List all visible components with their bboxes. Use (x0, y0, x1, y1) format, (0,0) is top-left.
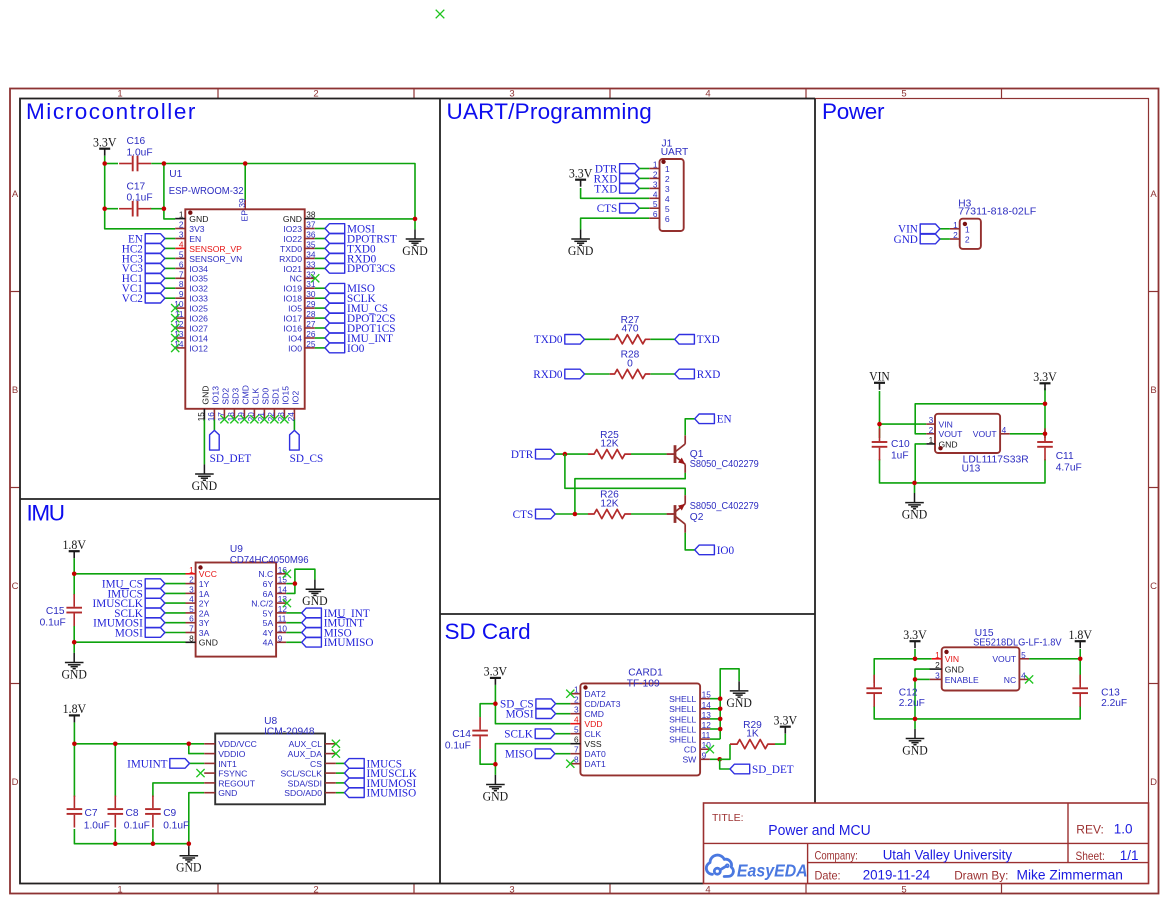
svg-text:4: 4 (179, 239, 184, 249)
U1 pin 39 EP (237, 198, 250, 222)
wire (315, 287, 325, 289)
svg-text:SD2: SD2 (221, 388, 231, 405)
svg-text:IO17: IO17 (283, 314, 302, 324)
junction DTR node (563, 452, 568, 457)
net flag RXD (675, 369, 695, 379)
svg-text:4A: 4A (263, 638, 274, 648)
junction SHELL bus 13 (718, 717, 723, 722)
net flag CTS to J1 pin 5 (620, 203, 640, 213)
no-connect X U9 pin 16 (283, 570, 291, 578)
CARD1 pin 14 SHELL (669, 700, 711, 714)
svg-text:SD3: SD3 (231, 388, 241, 405)
wire Q2 collector to IO0 flag (685, 533, 695, 550)
svg-text:RXD: RXD (697, 369, 721, 381)
CARD1 pin 8 DAT1 (570, 755, 606, 769)
svg-text:37: 37 (306, 220, 316, 230)
net flag IMUSCLK to U9 pin 4 (145, 598, 165, 608)
net flag DPOT1CS to U1 pin 27 (325, 323, 345, 333)
svg-text:3: 3 (929, 415, 934, 425)
svg-text:SHELL: SHELL (669, 724, 696, 734)
capacitor C14 0.1uF (472, 717, 488, 749)
wire (165, 592, 186, 594)
U15 pin 5 VOUT (992, 650, 1029, 664)
svg-text:EN: EN (717, 414, 732, 426)
U15 pin 3 ENABLE (930, 670, 979, 684)
svg-text:SD0: SD0 (261, 388, 271, 405)
no-connect X pin 13 (171, 334, 179, 342)
svg-text:AUX_CL: AUX_CL (289, 739, 323, 749)
wire (165, 257, 175, 259)
svg-text:CMD: CMD (241, 385, 251, 405)
svg-text:C13: C13 (1101, 687, 1120, 698)
net flag RXD to J1 pin 2 (620, 174, 640, 184)
svg-text:39: 39 (237, 198, 247, 208)
svg-text:IO18: IO18 (283, 294, 302, 304)
svg-text:B: B (1150, 385, 1156, 396)
net flag VC1 to U1 pin 8 (145, 283, 165, 293)
svg-text:U9: U9 (230, 544, 243, 555)
net flag SCLK to U9 pin 5 (145, 608, 165, 618)
svg-text:MISO: MISO (505, 749, 533, 761)
net flag IMUMOSI to U9 pin 6 (145, 618, 165, 628)
Q1 base lead (667, 453, 675, 455)
U1 pin 38 GND (283, 210, 316, 224)
no-connect X pin 20 (250, 415, 258, 423)
net flag RXD0 (565, 369, 585, 379)
U1 pin 9 IO33 (175, 289, 208, 303)
svg-text:GND: GND (945, 665, 964, 675)
wire SHELL pin (710, 738, 720, 740)
svg-text:RXD0: RXD0 (533, 369, 563, 381)
U9 pin 12 5Y (263, 604, 288, 618)
U1 pin 35 TXD0 (280, 239, 316, 253)
junction VIN/C10 (877, 422, 882, 427)
capacitor C11 4.7uF (1037, 428, 1053, 460)
svg-text:3: 3 (179, 230, 184, 240)
regulator U15 SE5218DLG-LF-1.8V body (942, 647, 1020, 690)
wire R26 to Q2 base (631, 513, 667, 515)
net flag EN (UART) (695, 414, 715, 424)
wire R27 to TXD (650, 338, 674, 340)
capacitor C12 2.2uF (866, 675, 882, 707)
J1 pin 2 (649, 169, 670, 184)
svg-text:1: 1 (574, 685, 579, 695)
svg-text:TITLE:: TITLE: (712, 812, 744, 824)
title block (704, 803, 1149, 884)
U1 pin 15 GND (196, 385, 211, 421)
wire C9 bottom (152, 829, 154, 844)
svg-text:D: D (1150, 777, 1157, 788)
op-amp U1 ESP-WROOM-32 body (185, 209, 304, 408)
svg-text:EasyEDA: EasyEDA (737, 861, 808, 881)
svg-text:S8050_C402279: S8050_C402279 (690, 459, 759, 470)
J1 pin 1 (649, 160, 670, 175)
U9 pin 14 6A (263, 584, 288, 598)
wire ENABLE junction to pin 3 (915, 678, 930, 680)
net flag CTS (536, 509, 556, 519)
wire (315, 327, 325, 329)
wire (286, 622, 302, 624)
svg-text:1A: 1A (199, 589, 210, 599)
svg-text:DPOT3CS: DPOT3CS (347, 263, 396, 275)
wire ground rail (U15) (874, 706, 1080, 719)
svg-text:TXD: TXD (594, 183, 617, 195)
wire (165, 297, 175, 299)
svg-text:SCLK: SCLK (504, 729, 533, 741)
net flag IMUSCLK from U8 (345, 768, 365, 778)
svg-text:11: 11 (278, 614, 287, 624)
U1 pin 4 SENSOR_VP (175, 239, 242, 253)
no-connect X AUX_DA (332, 750, 340, 758)
svg-text:IMUMISO: IMUMISO (324, 637, 374, 649)
svg-text:2: 2 (574, 695, 579, 705)
svg-text:1: 1 (117, 885, 122, 896)
U1 pin-1 marker dot (188, 211, 192, 215)
net flag RXD0 to U1 pin 34 (325, 254, 345, 264)
svg-text:1.0: 1.0 (1114, 822, 1133, 837)
no-connect X pin 22 (270, 415, 278, 423)
svg-text:Company:: Company: (815, 849, 858, 863)
U9 pin 4 2Y (186, 594, 210, 608)
svg-text:GND: GND (902, 507, 928, 522)
svg-text:3.3V: 3.3V (569, 166, 593, 181)
U8 pin AUX_CL (289, 739, 336, 749)
wire C14 bottom branch (480, 749, 495, 764)
svg-text:VSS: VSS (584, 739, 601, 749)
wire VIN power to U13 pin 3 (880, 391, 927, 424)
wire ground stem (U8) (188, 844, 190, 846)
svg-text:0.1uF: 0.1uF (40, 618, 66, 629)
svg-text:RXD0: RXD0 (279, 254, 302, 264)
svg-text:VDD/VCC: VDD/VCC (218, 739, 257, 749)
svg-text:GND: GND (201, 385, 211, 404)
svg-text:C9: C9 (163, 808, 176, 819)
power flag 3.3V output (U13) (1040, 383, 1051, 390)
junction VDDIO (187, 742, 192, 747)
svg-text:CLK: CLK (584, 729, 601, 739)
wire 3.3V rail to U13 pin 2 (915, 388, 1045, 434)
svg-text:S8050_C402279: S8050_C402279 (690, 501, 759, 512)
wire (639, 187, 649, 189)
svg-text:38: 38 (306, 210, 316, 220)
svg-text:26: 26 (306, 329, 316, 339)
U15 pin 2 GND (930, 660, 964, 674)
wire (165, 632, 186, 634)
svg-text:IO21: IO21 (283, 264, 302, 274)
svg-text:4.7uF: 4.7uF (1056, 462, 1082, 473)
frame column numbers (117, 89, 906, 896)
svg-text:DAT0: DAT0 (584, 749, 606, 759)
junction GND/C15 (U9) (72, 640, 77, 645)
U1 pin 32 NC (290, 269, 316, 283)
svg-text:3: 3 (653, 179, 658, 189)
junction SW node (717, 757, 722, 762)
svg-text:6: 6 (179, 259, 184, 269)
svg-text:IO23: IO23 (283, 224, 302, 234)
svg-text:VC2: VC2 (122, 293, 143, 305)
svg-text:3: 3 (509, 885, 514, 896)
transistor Q2 S8050 (667, 495, 686, 533)
svg-text:6: 6 (574, 735, 579, 745)
svg-text:5A: 5A (263, 618, 274, 628)
junction VOUT/C11 (1043, 432, 1048, 437)
svg-text:5: 5 (574, 725, 579, 735)
U9 pin 10 4Y (263, 624, 288, 638)
wire SW node (710, 758, 720, 760)
svg-text:SD Card: SD Card (445, 619, 531, 644)
svg-text:1/1: 1/1 (1120, 848, 1139, 863)
net flag IMU_INT from U9 (302, 608, 322, 618)
wire 1.8V to U8 VDD rail (74, 722, 204, 743)
capacitor C8 0.1uF (108, 796, 124, 828)
svg-text:VDD: VDD (584, 719, 602, 729)
svg-text:CMD: CMD (584, 709, 604, 719)
svg-text:1.8V: 1.8V (62, 537, 86, 552)
svg-text:CTS: CTS (597, 203, 618, 215)
U8 pin INT1 (204, 759, 237, 769)
svg-text:3.3V: 3.3V (93, 135, 117, 150)
svg-text:0: 0 (627, 358, 633, 369)
wire C13 column (1079, 659, 1081, 683)
net flag SCLK (SD card) (535, 729, 555, 739)
U1 pin 13 IO14 (174, 329, 208, 343)
svg-text:5: 5 (653, 199, 658, 209)
svg-text:1.0uF: 1.0uF (84, 820, 110, 831)
junction ground rail (U8) (187, 841, 192, 846)
wire (315, 247, 325, 249)
no-connect X pin 14 (171, 344, 179, 352)
wire 3.3V vertical to C11 (1044, 404, 1046, 438)
no-connect X pin 17 (220, 415, 228, 423)
svg-text:3.3V: 3.3V (774, 713, 798, 728)
net flag MISO to U1 pin 31 (325, 283, 345, 293)
net flag HC2 to U1 pin 4 (145, 244, 165, 254)
svg-text:VOUT: VOUT (973, 429, 998, 439)
U13 pin 4 VOUT (973, 425, 1010, 439)
wire (165, 602, 186, 604)
net flag IMUMOSI from U8 (345, 778, 365, 788)
net flag MOSI to U9 pin 7 (145, 628, 165, 638)
svg-text:2: 2 (965, 235, 970, 245)
power flag 1.8V (U8) (69, 715, 80, 722)
U1 pin 33 IO21 (283, 259, 316, 273)
U1 pin 8 IO32 (175, 279, 208, 293)
CARD1 pin 3 CMD (570, 705, 604, 719)
svg-text:4Y: 4Y (263, 628, 274, 638)
no-connect X CARD1 pin 1 (566, 690, 574, 698)
svg-text:1.0uF: 1.0uF (127, 147, 153, 158)
U13 pin 3 VIN (926, 415, 953, 429)
power flag 3.3V (UART) (575, 180, 586, 187)
wire (556, 703, 571, 705)
svg-text:CD/DAT3: CD/DAT3 (584, 699, 620, 709)
svg-text:IO35: IO35 (189, 274, 208, 284)
svg-text:5: 5 (189, 604, 194, 614)
svg-text:EN: EN (189, 234, 201, 244)
svg-text:2: 2 (935, 660, 940, 670)
wire Q1 collector to EN flag (685, 419, 695, 436)
svg-text:6: 6 (665, 214, 670, 224)
op-amp U9 CD74HC4050M96 body (196, 563, 277, 657)
junction 3.3V/C14 (493, 701, 498, 706)
svg-text:25: 25 (306, 339, 316, 349)
U9 pin 16 N.C (258, 565, 287, 579)
net flag HC3 to U1 pin 5 (145, 254, 165, 264)
U9 pin 9 4A (263, 633, 287, 647)
CARD1 pin-1 marker dot (583, 685, 587, 689)
svg-text:VOUT: VOUT (939, 429, 964, 439)
J1 pin 6 (649, 209, 670, 224)
svg-text:1.8V: 1.8V (1068, 627, 1092, 642)
svg-text:C: C (12, 581, 19, 592)
svg-text:33: 33 (306, 259, 316, 269)
svg-text:GND: GND (176, 860, 202, 875)
junction 1.8V/C15 (72, 572, 77, 577)
svg-text:GND: GND (568, 243, 594, 258)
svg-text:1: 1 (189, 565, 194, 575)
wire C10 column (879, 424, 881, 438)
no-connect X AUX_CL (332, 740, 340, 748)
svg-text:AUX_DA: AUX_DA (288, 749, 323, 759)
svg-text:6: 6 (653, 209, 658, 219)
svg-text:IO12: IO12 (189, 343, 208, 353)
wire SHELL bus vertical (719, 699, 721, 739)
svg-text:3: 3 (935, 670, 940, 680)
ground below U8 (180, 846, 199, 862)
wire (315, 317, 325, 319)
svg-text:FSYNC: FSYNC (218, 769, 247, 779)
U1 pin 23 IO15 (276, 386, 291, 422)
net flag TXD (675, 335, 695, 345)
U1 pin 30 IO18 (283, 289, 316, 303)
wire C17 left (105, 208, 118, 210)
svg-text:N.C: N.C (258, 569, 273, 579)
svg-text:10: 10 (278, 624, 288, 634)
svg-text:SD1: SD1 (271, 388, 281, 405)
svg-text:MOSI: MOSI (115, 627, 143, 639)
U8 pin FSYNC (204, 769, 247, 779)
U1 pin 25 IO0 (288, 339, 316, 353)
power flag 3.3V (microcontroller) (99, 149, 110, 156)
U9 pin 13 N.C/2 (251, 594, 287, 608)
svg-text:IO15: IO15 (281, 386, 291, 405)
svg-text:36: 36 (306, 230, 316, 240)
svg-text:C11: C11 (1056, 451, 1074, 462)
svg-text:IO19: IO19 (283, 284, 302, 294)
svg-text:B: B (12, 385, 18, 396)
svg-text:GND: GND (302, 593, 328, 608)
svg-text:3A: 3A (199, 628, 210, 638)
junction 3.3V rail (1043, 402, 1048, 407)
svg-text:6: 6 (189, 614, 194, 624)
junction CTS node (573, 512, 578, 517)
svg-text:GND: GND (218, 788, 237, 798)
capacitor C10 1uF (872, 428, 888, 460)
svg-text:1: 1 (653, 160, 658, 170)
no-connect X pin 19 (240, 415, 248, 423)
wire ground stem (U15) (914, 719, 916, 729)
U1 pin 2 3V3 (175, 220, 205, 234)
wire SW to R29 (720, 744, 730, 759)
U8 pin SDA/SDI (288, 778, 336, 788)
overline on MOSI label (SD) (516, 708, 524, 710)
wire U9 GND to ground (73, 642, 75, 653)
net flag MISO from U9 (302, 628, 322, 638)
svg-text:3: 3 (665, 184, 670, 194)
svg-text:IO22: IO22 (283, 234, 302, 244)
svg-text:Date:: Date: (815, 869, 841, 883)
wire C16 left (105, 163, 118, 165)
junction ground rail (U13) (912, 481, 917, 486)
svg-text:C10: C10 (891, 439, 910, 450)
U1 pin 12 IO27 (174, 319, 208, 333)
wire ground stem (SD) (494, 764, 496, 775)
svg-text:DAT1: DAT1 (584, 759, 606, 769)
svg-text:VIN: VIN (869, 369, 890, 384)
svg-text:3: 3 (189, 584, 194, 594)
svg-text:INT1: INT1 (218, 759, 237, 769)
svg-text:U1: U1 (169, 169, 182, 180)
svg-text:SHELL: SHELL (669, 694, 696, 704)
junction 3.3V rail left (102, 161, 107, 166)
capacitor C17 0.1uF (119, 201, 151, 217)
net flag DPOT3CS to U1 pin 33 (325, 264, 345, 274)
power flag VIN (U13) (874, 383, 885, 390)
net flag SD_CS (SD card) (536, 699, 556, 709)
svg-text:2.2uF: 2.2uF (899, 698, 925, 709)
svg-text:CLK: CLK (251, 388, 261, 405)
wire C8 top (114, 744, 116, 797)
wire R28 to RXD (650, 373, 674, 375)
U9 pin 5 2A (186, 604, 210, 618)
svg-text:2: 2 (953, 230, 958, 240)
svg-text:EP: EP (240, 210, 250, 222)
svg-text:2.2uF: 2.2uF (1101, 698, 1127, 709)
transistor Q1 S8050 (667, 435, 686, 473)
svg-text:CS: CS (310, 759, 322, 769)
svg-text:VOUT: VOUT (992, 654, 1017, 664)
junction GND/ENABLE (913, 677, 918, 682)
svg-text:IO32: IO32 (189, 284, 208, 294)
net flag IMUMISO from U9 (302, 638, 322, 648)
power flag 3.3V (U15) (910, 641, 921, 648)
svg-text:31: 31 (306, 279, 316, 289)
U13 pin 1 GND (926, 435, 957, 449)
svg-text:VIN: VIN (939, 420, 953, 430)
svg-text:VIN: VIN (945, 654, 959, 664)
svg-text:12K: 12K (600, 498, 618, 509)
connector CARD1 TF-109 body (580, 683, 700, 775)
svg-text:IO4: IO4 (288, 333, 302, 343)
wire (556, 713, 571, 715)
wire (336, 762, 345, 764)
net flag SCLK to U1 pin 30 (325, 293, 345, 303)
no-connect X U15 pin 4 (1025, 675, 1033, 683)
svg-text:IMUINT: IMUINT (127, 758, 168, 770)
EasyEDA logo (706, 855, 733, 876)
svg-text:1: 1 (935, 650, 940, 660)
capacitor C7 1.0uF (67, 796, 83, 828)
svg-text:0.1uF: 0.1uF (124, 820, 150, 831)
no-connect X CARD1 pin 8 (566, 760, 574, 768)
ground below U15 (906, 729, 925, 745)
wire (286, 612, 302, 614)
svg-text:C12: C12 (899, 687, 918, 698)
svg-text:27: 27 (306, 319, 316, 329)
wire C10 bottom rail (880, 459, 1046, 483)
junction 3.3V/C12 (913, 657, 918, 662)
net flag IMUCS from U8 (345, 759, 365, 769)
